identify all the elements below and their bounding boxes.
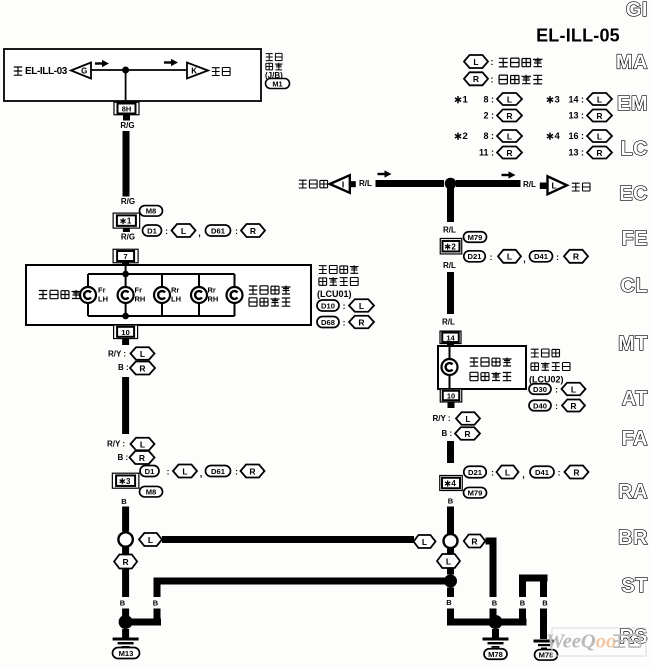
- svg-text:R/L: R/L: [359, 179, 372, 188]
- svg-text:D40: D40: [533, 401, 547, 410]
- svg-text:11 :: 11 :: [479, 148, 494, 158]
- wire bus bottom: [88, 315, 235, 317]
- ground: [534, 640, 554, 650]
- svg-text:L: L: [181, 226, 186, 236]
- svg-text:L: L: [552, 181, 557, 191]
- wire: [447, 609, 454, 626]
- svg-text:I: I: [342, 179, 344, 189]
- svg-text:M79: M79: [468, 233, 483, 242]
- svg-text:4: 4: [554, 131, 560, 142]
- wire: [376, 180, 445, 187]
- lamp bulb: [80, 287, 96, 303]
- section tab CL: [620, 275, 648, 297]
- legend *3: [547, 93, 612, 105]
- connector *1: [113, 213, 139, 228]
- svg-text:R/G: R/G: [120, 121, 134, 130]
- node junction in J/B: [122, 67, 129, 74]
- wire label R/L: [443, 226, 456, 235]
- connector M78: [535, 650, 558, 661]
- svg-text:B :: B :: [442, 429, 453, 438]
- wire: [490, 609, 497, 623]
- node D21 D41 legend: [464, 250, 588, 264]
- section tab LC: [620, 138, 648, 160]
- svg-text:D1: D1: [147, 226, 157, 235]
- svg-text:R/Y :: R/Y :: [108, 350, 126, 359]
- svg-text::: :: [235, 226, 238, 236]
- wire label B: [446, 598, 452, 607]
- section tab BR: [618, 527, 648, 549]
- svg-text:14: 14: [446, 333, 455, 342]
- svg-text:R/L: R/L: [443, 226, 456, 235]
- svg-text:R/G: R/G: [121, 233, 135, 242]
- svg-text:B: B: [120, 599, 126, 608]
- label 驾驶员门控制单元 LCU01: [317, 265, 359, 299]
- wire: [122, 547, 129, 555]
- section tab FA: [621, 428, 648, 450]
- connector *2: [440, 238, 462, 254]
- svg-text::: :: [558, 468, 561, 478]
- svg-text:AT: AT: [622, 388, 648, 410]
- wire: [154, 585, 161, 598]
- wire: [123, 131, 130, 197]
- wire: [447, 568, 454, 575]
- wire label B R: [118, 451, 155, 464]
- wire: [540, 582, 547, 598]
- node D1 D61 legend: [143, 224, 266, 238]
- watermark WeeQoo: [546, 631, 641, 653]
- connector M79: [464, 232, 487, 243]
- wire: [540, 609, 547, 640]
- node L hexagon: [414, 535, 436, 548]
- svg-text:L: L: [148, 535, 153, 545]
- svg-text::: :: [555, 401, 558, 411]
- wire: [161, 274, 163, 316]
- wire: [123, 228, 130, 232]
- wire: [447, 343, 454, 347]
- svg-text:L: L: [359, 301, 364, 311]
- wire: [447, 441, 454, 463]
- svg-text:R: R: [123, 557, 129, 567]
- svg-text:D41: D41: [534, 252, 549, 261]
- svg-text:R/L: R/L: [443, 261, 456, 270]
- label Fr LH: [98, 286, 108, 304]
- wire: [123, 115, 130, 121]
- lamp bulb: [227, 287, 243, 303]
- connector M1: [266, 79, 290, 89]
- svg-text::: :: [555, 385, 558, 395]
- ground: [113, 629, 139, 648]
- svg-text:EL-ILL-05: EL-ILL-05: [536, 26, 620, 46]
- label 接前页 from preceding page: [299, 180, 328, 188]
- svg-text:MT: MT: [618, 333, 648, 355]
- wire label R/Y L: [433, 412, 481, 425]
- node D10 L: [317, 299, 374, 312]
- svg-text:B: B: [542, 599, 548, 608]
- connector 14: [440, 331, 461, 344]
- node junction: [489, 615, 503, 629]
- svg-text:R: R: [596, 111, 602, 121]
- svg-text:CL: CL: [620, 275, 648, 297]
- svg-text:1: 1: [462, 94, 468, 105]
- wire label R/G: [120, 121, 134, 130]
- svg-text:D41: D41: [535, 468, 550, 477]
- svg-text:M13: M13: [119, 649, 134, 658]
- legend R right-hand-drive: [464, 72, 542, 85]
- svg-text:13 :: 13 :: [568, 148, 584, 158]
- svg-text:RH: RH: [135, 295, 146, 304]
- svg-text:8H: 8H: [122, 105, 132, 114]
- svg-text:L: L: [465, 414, 470, 424]
- section tab EC: [619, 183, 648, 205]
- wire: [198, 274, 200, 316]
- wire label R/G: [121, 197, 135, 206]
- fuse block J/B box: [4, 49, 261, 101]
- connector M79: [464, 487, 487, 498]
- label 至 EL-ILL-03: [14, 66, 68, 77]
- connector 10: [440, 389, 462, 402]
- flow arrow: [95, 60, 109, 67]
- svg-text:B: B: [492, 599, 498, 608]
- svg-text:10: 10: [447, 392, 455, 401]
- svg-text:,: ,: [522, 470, 525, 480]
- svg-text:R: R: [471, 536, 477, 546]
- label 电动车窗开关照明: [249, 286, 291, 307]
- flow arrow: [378, 170, 392, 177]
- svg-text:D68: D68: [321, 318, 335, 327]
- node L hexagon: [139, 533, 162, 546]
- legend *3 R: [568, 110, 612, 122]
- wire: [122, 377, 129, 434]
- section tab ST: [621, 575, 648, 597]
- svg-text:R: R: [139, 453, 145, 463]
- wire: [154, 609, 161, 626]
- node L hexagon: [437, 554, 460, 568]
- wire: [162, 536, 414, 543]
- connector arrow G: [71, 63, 91, 79]
- svg-text:(LCU01): (LCU01): [317, 289, 352, 299]
- svg-text:R: R: [473, 74, 479, 84]
- label 保险丝盒 (J/B): [265, 53, 283, 80]
- svg-text:R: R: [506, 111, 512, 121]
- wire label B R: [118, 362, 155, 375]
- svg-text::: :: [556, 252, 559, 262]
- svg-text:,: ,: [198, 228, 201, 238]
- section tab GI: [626, 0, 648, 21]
- connector M8: [140, 206, 163, 217]
- svg-text:L: L: [507, 252, 512, 262]
- svg-text:L: L: [140, 439, 145, 449]
- svg-text:R/Y :: R/Y :: [107, 440, 125, 449]
- svg-text:D21: D21: [468, 468, 483, 477]
- svg-text::: :: [491, 468, 494, 478]
- wire: [447, 272, 454, 314]
- svg-text:R: R: [464, 429, 470, 439]
- svg-text:D61: D61: [211, 226, 226, 235]
- svg-text:L: L: [507, 131, 512, 141]
- wire: [447, 548, 454, 554]
- wire bus top: [88, 273, 235, 275]
- svg-text:MA: MA: [616, 52, 648, 74]
- node junction open: [444, 534, 458, 548]
- svg-text:8 :: 8 :: [483, 131, 494, 141]
- svg-text:D61: D61: [211, 467, 226, 476]
- svg-text:M8: M8: [146, 207, 157, 216]
- connector M8: [140, 486, 163, 497]
- svg-text:D1: D1: [145, 467, 155, 476]
- wire: [90, 69, 188, 71]
- svg-text:B :: B :: [118, 453, 129, 462]
- svg-text:L: L: [597, 94, 602, 104]
- svg-text:FE: FE: [621, 228, 648, 250]
- node D21 D41 legend: [464, 466, 589, 480]
- wire: [486, 538, 497, 545]
- section tab FE: [621, 228, 648, 250]
- lamp bulb: [154, 287, 170, 303]
- svg-text:Rr: Rr: [208, 286, 216, 295]
- legend *1 R: [483, 110, 522, 122]
- svg-text:1: 1: [127, 217, 132, 226]
- passenger door control unit LCU02 box: [438, 346, 526, 389]
- svg-text:3: 3: [126, 477, 131, 486]
- svg-text:R: R: [358, 317, 364, 327]
- svg-text:LC: LC: [620, 138, 648, 160]
- section tab AT: [622, 388, 648, 410]
- wire label R/G: [121, 233, 135, 242]
- connector arrow K: [187, 63, 208, 79]
- wire: [447, 188, 454, 222]
- svg-text:GI: GI: [626, 0, 648, 21]
- svg-text:R: R: [506, 148, 512, 158]
- svg-text::: :: [490, 252, 493, 262]
- wire: [448, 402, 455, 408]
- svg-text:Fr: Fr: [135, 286, 143, 295]
- wire label B: [520, 599, 526, 608]
- section tab RS: [619, 626, 648, 648]
- wire: [125, 265, 127, 274]
- section tab EM: [617, 93, 648, 115]
- wire: [519, 582, 526, 598]
- node D40 R: [529, 400, 585, 412]
- svg-text::: :: [343, 301, 346, 311]
- node R hexagon: [114, 555, 137, 569]
- svg-text:B: B: [520, 599, 526, 608]
- svg-text:B: B: [121, 497, 127, 506]
- svg-text:G: G: [81, 66, 87, 75]
- connector arrow L: [540, 176, 567, 194]
- svg-text:BR: BR: [618, 527, 648, 549]
- connector M78: [484, 649, 507, 660]
- wire: [519, 575, 548, 582]
- wire: [125, 274, 127, 316]
- wire: [234, 274, 236, 316]
- node R hexagon: [464, 535, 486, 548]
- svg-text:Rr: Rr: [171, 286, 179, 295]
- svg-text:ST: ST: [621, 575, 648, 597]
- wire label R/L: [359, 179, 372, 188]
- svg-text:L: L: [507, 94, 512, 104]
- svg-text:4: 4: [451, 479, 456, 488]
- wire: [456, 180, 521, 187]
- svg-text:LH: LH: [98, 295, 108, 304]
- svg-text:14 :: 14 :: [568, 95, 584, 105]
- label 门锁开关 door lock switch: [39, 290, 81, 299]
- svg-text:R: R: [250, 226, 256, 236]
- svg-text:10: 10: [121, 328, 129, 337]
- wire: [154, 578, 446, 585]
- connector 10: [114, 325, 138, 339]
- connector arrow I: [330, 175, 356, 193]
- node junction: [122, 313, 129, 320]
- svg-text:,: ,: [523, 254, 526, 264]
- connector 8H: [114, 102, 139, 115]
- svg-text:R: R: [596, 148, 602, 158]
- svg-text:R: R: [139, 363, 145, 373]
- watermark frame: [552, 628, 646, 656]
- ground: [483, 629, 509, 648]
- wire: [449, 346, 451, 389]
- svg-text:EL-ILL-03: EL-ILL-03: [25, 66, 68, 77]
- label 下页 next page: [212, 68, 230, 76]
- lamp bulb: [191, 287, 207, 303]
- svg-text::: :: [491, 74, 494, 84]
- svg-text:M79: M79: [468, 489, 483, 498]
- svg-text:Fr: Fr: [98, 286, 106, 295]
- svg-text:D10: D10: [321, 301, 335, 310]
- svg-text:L: L: [571, 384, 576, 394]
- legend *4 R: [568, 147, 612, 159]
- svg-text:L: L: [422, 537, 427, 547]
- flow arrow: [502, 171, 516, 178]
- svg-text:B: B: [153, 599, 159, 608]
- svg-text:L: L: [446, 556, 451, 566]
- wire label R/L: [523, 180, 536, 189]
- label Fr RH: [135, 286, 146, 304]
- svg-text:R/G: R/G: [121, 197, 135, 206]
- wire: [87, 274, 89, 316]
- wire: [447, 619, 527, 626]
- svg-text:8 :: 8 :: [483, 95, 494, 105]
- label 电动车窗开关照明: [470, 358, 512, 381]
- svg-text:R: R: [570, 401, 576, 411]
- section tab MT: [618, 333, 648, 355]
- svg-text:L: L: [505, 467, 510, 477]
- svg-text:B :: B :: [118, 363, 129, 372]
- svg-text:LH: LH: [171, 295, 181, 304]
- node D1 D61 legend: [140, 465, 265, 479]
- label 乘客门控制单元 LCU02: [529, 349, 570, 385]
- title EL-ILL-05: [536, 26, 620, 46]
- svg-text:M8: M8: [146, 488, 157, 497]
- wire: [490, 541, 497, 597]
- svg-text:M1: M1: [272, 79, 282, 88]
- svg-text:M78: M78: [488, 650, 503, 659]
- lamp bulb: [442, 359, 458, 375]
- svg-text:7: 7: [124, 252, 128, 261]
- legend *2 R: [479, 147, 522, 159]
- svg-text:,: ,: [200, 469, 203, 479]
- wire: [122, 569, 129, 598]
- svg-text:RH: RH: [208, 295, 219, 304]
- node D30 L: [529, 383, 586, 396]
- svg-text:RS: RS: [619, 626, 648, 648]
- svg-text:3: 3: [554, 94, 559, 105]
- node junction open: [118, 532, 132, 546]
- svg-text:R/Y :: R/Y :: [433, 414, 451, 423]
- wire: [122, 339, 129, 346]
- legend *2: [455, 130, 522, 142]
- node junction: [445, 178, 457, 190]
- svg-text:L: L: [473, 57, 478, 67]
- legend *1: [455, 93, 522, 105]
- svg-text:L: L: [182, 466, 187, 476]
- svg-text:R/L: R/L: [442, 318, 455, 327]
- wire: [126, 619, 161, 626]
- node junction: [122, 271, 129, 278]
- section tab RA: [618, 481, 648, 503]
- wire label R/L: [443, 261, 456, 270]
- connector 7: [113, 249, 138, 263]
- svg-text:D21: D21: [468, 252, 483, 261]
- node junction: [119, 615, 133, 629]
- svg-text:EC: EC: [619, 183, 648, 205]
- wire label B: [542, 599, 548, 608]
- wire label B: [448, 497, 454, 506]
- legend *4: [547, 130, 612, 142]
- driver door control unit LCU01 box: [26, 265, 311, 325]
- svg-text:16 :: 16 :: [568, 131, 584, 141]
- svg-text::: :: [491, 57, 494, 67]
- label Rr LH: [171, 286, 181, 304]
- svg-text:13 :: 13 :: [568, 111, 584, 121]
- lamp bulb: [118, 287, 134, 303]
- svg-text:B: B: [446, 598, 452, 607]
- svg-text:RA: RA: [618, 481, 648, 503]
- wire label B R: [442, 427, 481, 440]
- wire: [447, 588, 454, 598]
- svg-text:R/L: R/L: [523, 180, 536, 189]
- svg-text::: :: [165, 226, 168, 236]
- wire label R/L: [442, 318, 455, 327]
- svg-text:R: R: [573, 467, 579, 477]
- svg-text::: :: [235, 467, 238, 477]
- svg-text:EM: EM: [617, 93, 648, 115]
- svg-text:B: B: [448, 497, 454, 506]
- wire label B: [492, 599, 498, 608]
- wire label B: [120, 599, 126, 608]
- legend L left-hand-drive: [464, 55, 543, 68]
- svg-text:WeeQoo: WeeQoo: [546, 631, 616, 653]
- wire: [519, 609, 526, 619]
- svg-text:2 :: 2 :: [483, 111, 494, 121]
- flow arrow: [164, 59, 178, 66]
- wire label B: [121, 497, 127, 506]
- connector *3: [112, 473, 139, 488]
- connector *4: [440, 476, 463, 491]
- svg-text:2: 2: [462, 131, 467, 142]
- wire: [125, 70, 127, 101]
- svg-text:R: R: [573, 252, 579, 262]
- svg-text:D30: D30: [533, 385, 547, 394]
- svg-text:R: R: [249, 466, 255, 476]
- section tab MA: [616, 52, 648, 74]
- svg-text:L: L: [140, 349, 145, 359]
- wire label B: [153, 599, 159, 608]
- wire: [122, 262, 129, 266]
- wire label R/Y L: [108, 347, 155, 360]
- wire label R/Y L: [107, 438, 155, 451]
- svg-text:L: L: [597, 131, 602, 141]
- label Rr RH: [208, 286, 219, 304]
